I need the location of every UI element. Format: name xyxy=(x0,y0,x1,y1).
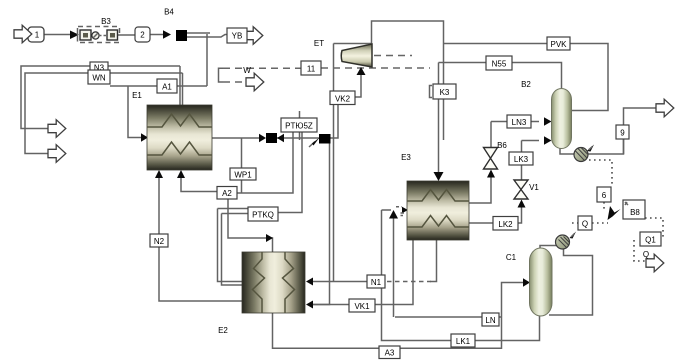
svg-text:K3: K3 xyxy=(440,88,450,97)
svg-text:B4: B4 xyxy=(164,8,174,17)
svg-text:WN: WN xyxy=(92,74,106,83)
svg-text:E1: E1 xyxy=(132,91,142,100)
svg-text:LN: LN xyxy=(485,316,495,325)
svg-text:Q: Q xyxy=(582,220,588,229)
svg-text:N55: N55 xyxy=(492,60,507,69)
svg-text:B3: B3 xyxy=(101,17,111,26)
svg-text:1: 1 xyxy=(35,31,40,40)
svg-text:A2: A2 xyxy=(222,189,232,198)
svg-text:LK1: LK1 xyxy=(456,337,471,346)
svg-text:E3: E3 xyxy=(401,153,411,162)
svg-text:2: 2 xyxy=(140,31,145,40)
svg-text:Q1: Q1 xyxy=(645,236,656,245)
svg-text:YB: YB xyxy=(232,32,243,41)
svg-text:A1: A1 xyxy=(162,83,172,92)
svg-text:B6: B6 xyxy=(497,141,507,150)
svg-text:C1: C1 xyxy=(506,253,517,262)
svg-text:PTKQ: PTKQ xyxy=(252,211,274,220)
svg-text:A3: A3 xyxy=(385,349,395,358)
svg-text:LN3: LN3 xyxy=(512,118,527,127)
svg-text:Q: Q xyxy=(643,250,649,259)
svg-text:WP1: WP1 xyxy=(234,170,252,179)
svg-text:B8: B8 xyxy=(630,208,640,217)
svg-text:N1: N1 xyxy=(371,278,382,287)
svg-text:V1: V1 xyxy=(529,183,539,192)
svg-text:ET: ET xyxy=(314,39,324,48)
svg-text:N2: N2 xyxy=(154,237,165,246)
svg-text:11: 11 xyxy=(307,65,316,74)
svg-text:6: 6 xyxy=(602,191,607,200)
svg-text:W: W xyxy=(243,66,251,75)
svg-text:LK2: LK2 xyxy=(498,220,513,229)
svg-text:B2: B2 xyxy=(521,80,531,89)
svg-text:9: 9 xyxy=(620,129,625,138)
svg-text:VK1: VK1 xyxy=(354,302,370,311)
svg-text:PVK: PVK xyxy=(550,40,567,49)
svg-text:E2: E2 xyxy=(218,326,228,335)
svg-text:VK2: VK2 xyxy=(335,95,351,104)
svg-text:PTЮ5Z: PTЮ5Z xyxy=(285,122,313,131)
svg-text:LK3: LK3 xyxy=(514,155,529,164)
